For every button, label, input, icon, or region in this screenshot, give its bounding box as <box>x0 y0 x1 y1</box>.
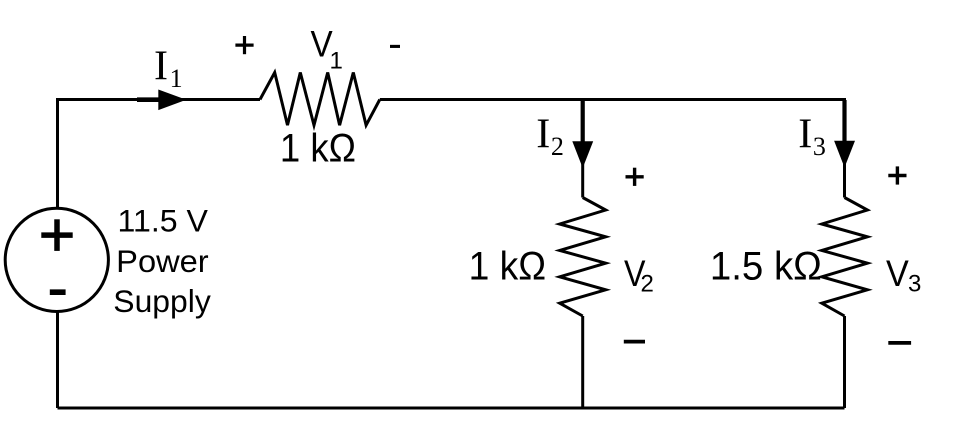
plus sign left of V1 <box>243 36 246 54</box>
svg-text:Power: Power <box>116 243 209 279</box>
current arrow I2 <box>581 100 585 143</box>
svg-text:3: 3 <box>813 132 826 161</box>
svg-text:1 kΩ: 1 kΩ <box>469 245 546 289</box>
wire: middle branch lower <box>581 316 584 408</box>
current arrow I1 <box>137 97 162 102</box>
resistor R1 (horizontal, 1 kOhm) <box>260 73 380 126</box>
svg-text:1.5 kΩ: 1.5 kΩ <box>710 245 822 289</box>
svg-text:11.5 V: 11.5 V <box>118 203 208 239</box>
wire: top-right segment <box>380 98 845 101</box>
svg-text:2: 2 <box>551 132 564 161</box>
svg-text:1: 1 <box>170 64 183 93</box>
minus sign below V2 <box>624 340 645 344</box>
plus symbol inside source <box>54 219 60 251</box>
svg-text:1 kΩ: 1 kΩ <box>280 127 356 171</box>
wire: right branch lower <box>843 316 846 408</box>
current arrow I3 <box>842 100 846 143</box>
svg-text:V: V <box>886 253 909 294</box>
plus sign above V2 <box>633 168 636 186</box>
wire: middle branch upper <box>581 98 584 198</box>
svg-text:I: I <box>798 112 812 158</box>
voltage source circle (11.5 V power supply) <box>5 208 108 311</box>
svg-text:1: 1 <box>330 47 343 74</box>
plus sign above V3 <box>896 166 899 184</box>
svg-text:2: 2 <box>641 270 654 297</box>
resistor R3 (vertical, 1.5 kOhm) <box>822 198 868 317</box>
minus sign right of V1 <box>390 45 400 48</box>
svg-text:I: I <box>154 44 168 90</box>
wire: left lower riser <box>56 313 59 409</box>
minus symbol inside source <box>50 289 66 295</box>
resistor R2 (vertical, 1 kOhm) <box>560 198 606 317</box>
svg-text:Supply: Supply <box>113 283 211 319</box>
minus sign below V3 <box>888 341 911 345</box>
svg-text:3: 3 <box>908 270 921 297</box>
wire: top-left segment with left riser <box>58 100 261 208</box>
wire: bottom bus <box>58 407 845 410</box>
wire: right branch upper <box>843 98 846 198</box>
svg-text:I: I <box>536 112 550 158</box>
